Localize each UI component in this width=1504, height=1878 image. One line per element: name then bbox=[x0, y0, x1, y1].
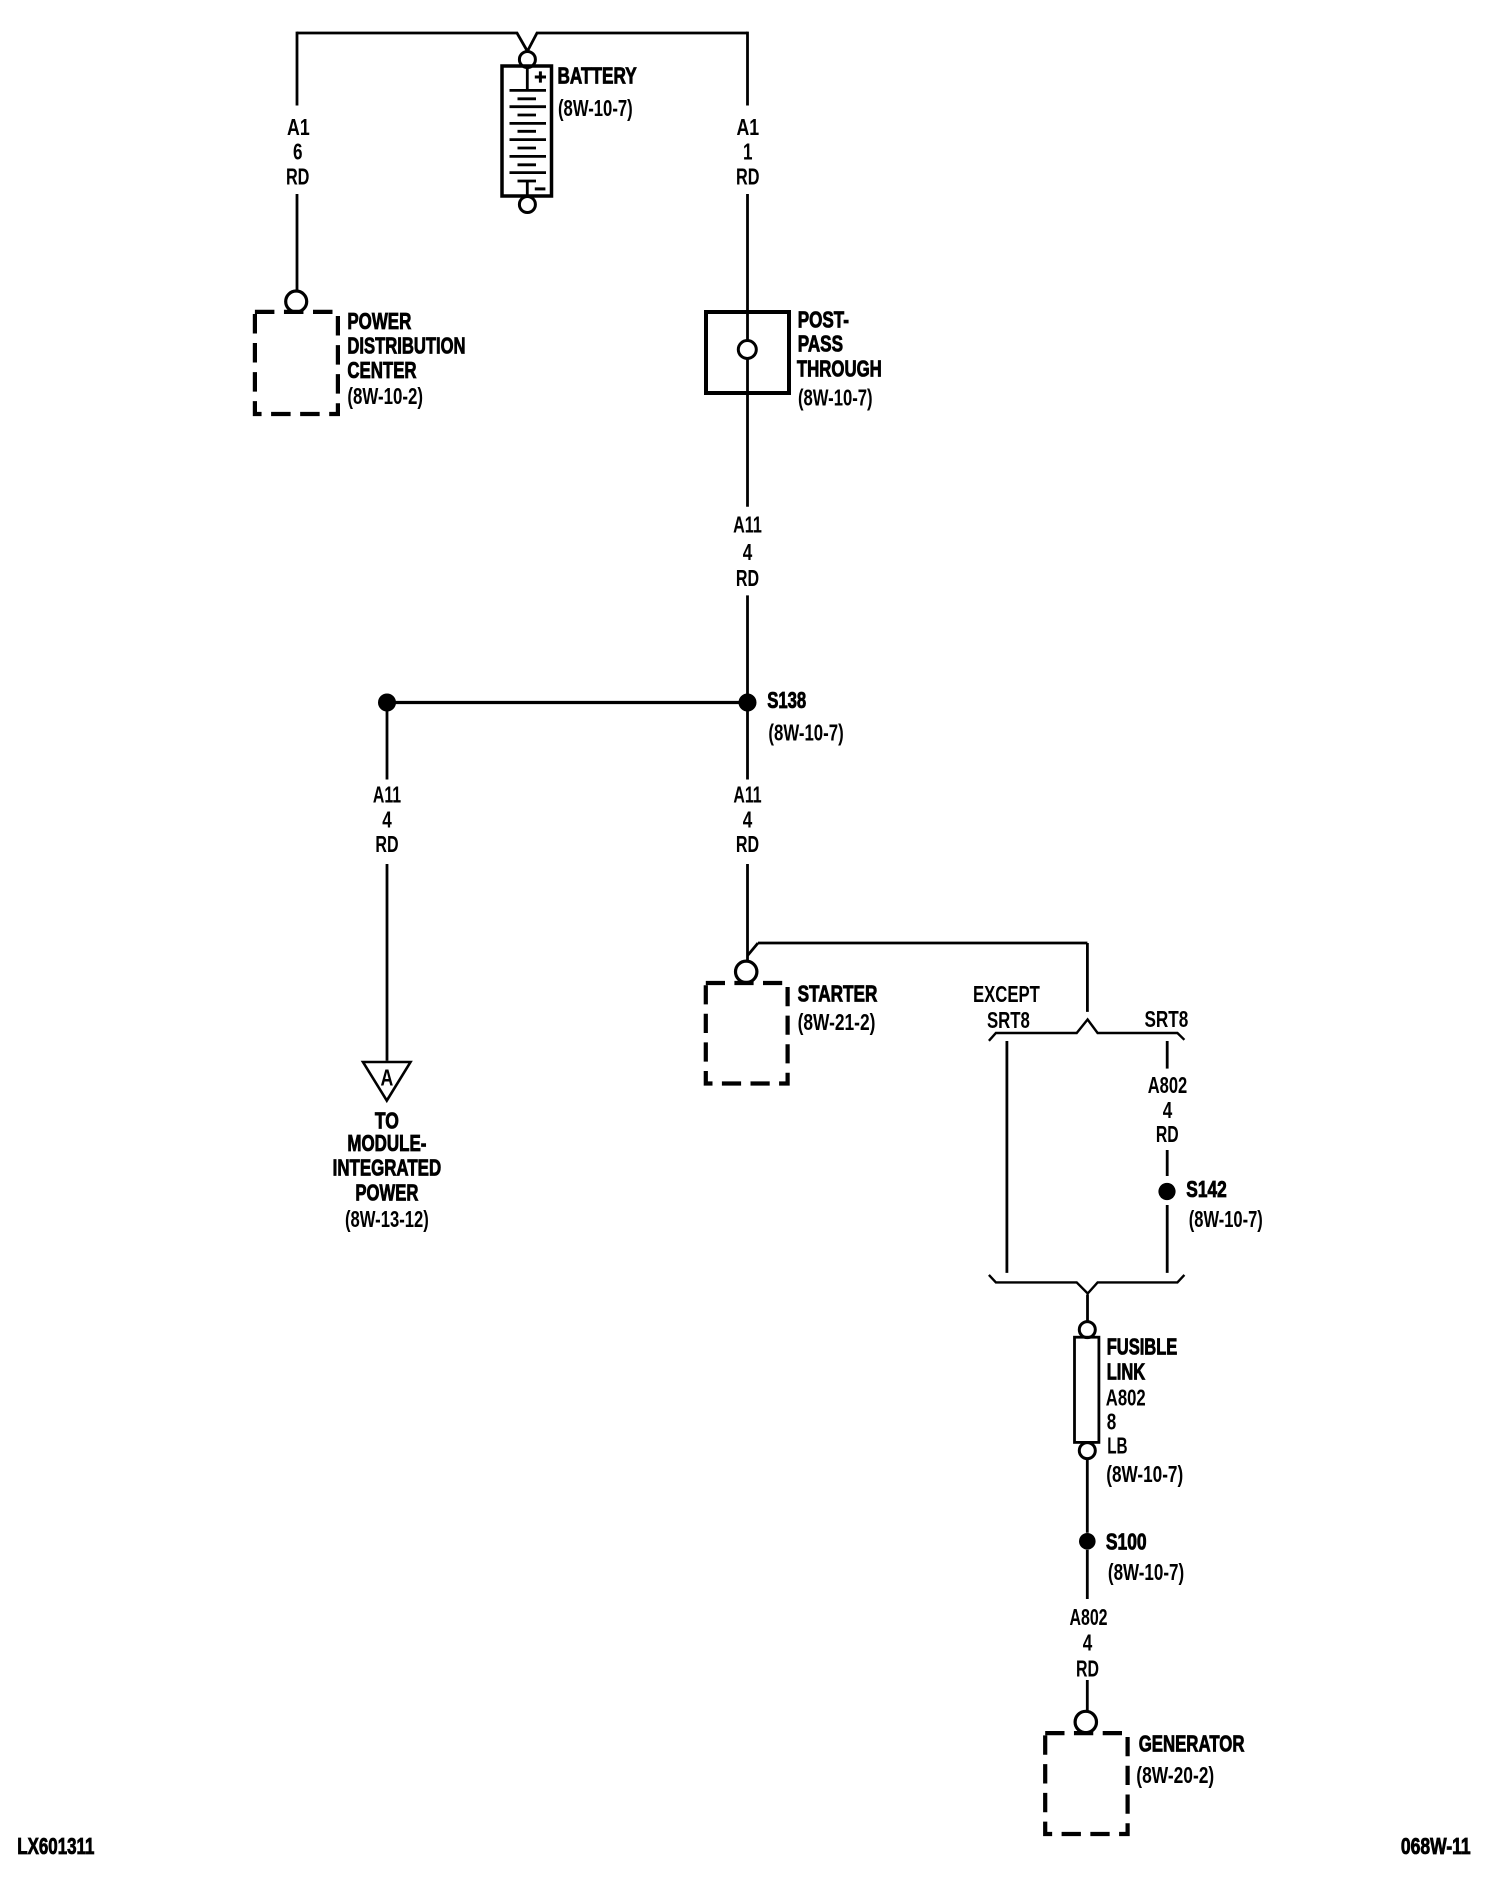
svg-text:S142: S142 bbox=[1186, 1176, 1226, 1202]
fusible link body bbox=[1075, 1337, 1099, 1442]
battery B1 top terminal circle bbox=[519, 52, 535, 68]
svg-text:(8W-10-7): (8W-10-7) bbox=[1106, 1461, 1183, 1487]
svg-text:A11: A11 bbox=[733, 512, 762, 538]
wire top-right horizontal from battery V to right branch bbox=[528, 33, 748, 51]
svg-text:(8W-10-7): (8W-10-7) bbox=[768, 720, 843, 746]
svg-text:A1: A1 bbox=[287, 114, 310, 140]
svg-text:CENTER: CENTER bbox=[347, 357, 416, 383]
splice S138 dot bbox=[739, 694, 757, 712]
battery B1 positive stub bbox=[526, 68, 529, 90]
svg-text:FUSIBLE: FUSIBLE bbox=[1107, 1333, 1178, 1359]
wire A802 label to generator bbox=[1086, 1680, 1089, 1711]
svg-text:A802: A802 bbox=[1148, 1072, 1188, 1098]
svg-text:RD: RD bbox=[736, 163, 760, 189]
wire starter branch lower segment to starter bbox=[746, 864, 749, 961]
svg-text:4: 4 bbox=[1083, 1630, 1093, 1656]
svg-text:MODULE-: MODULE- bbox=[347, 1130, 426, 1156]
post-pass through eyelet circle bbox=[738, 341, 756, 359]
wire left vertical A1-6-RD lower segment bbox=[296, 194, 299, 291]
svg-text:A1: A1 bbox=[736, 114, 759, 140]
wire fusible link to S100 bbox=[1086, 1459, 1089, 1533]
svg-text:S138: S138 bbox=[767, 687, 806, 713]
svg-text:(8W-21-2): (8W-21-2) bbox=[798, 1009, 876, 1035]
svg-text:SRT8: SRT8 bbox=[987, 1007, 1030, 1033]
svg-text:8: 8 bbox=[1107, 1409, 1117, 1435]
svg-text:(8W-10-7): (8W-10-7) bbox=[558, 95, 633, 121]
option split brace top bbox=[989, 1020, 1185, 1041]
svg-text:6: 6 bbox=[293, 139, 303, 165]
wire right vertical A1-1-RD upper segment bbox=[746, 32, 749, 106]
svg-text:(8W-20-2): (8W-20-2) bbox=[1136, 1762, 1214, 1788]
svg-text:(8W-10-7): (8W-10-7) bbox=[1108, 1559, 1184, 1585]
svg-text:GENERATOR: GENERATOR bbox=[1139, 1731, 1245, 1757]
splice junction dot left bbox=[378, 694, 396, 712]
wire horizontal to option split bbox=[758, 942, 1087, 945]
svg-text:LB: LB bbox=[1107, 1433, 1127, 1459]
svg-text:4: 4 bbox=[743, 539, 753, 565]
svg-text:A11: A11 bbox=[373, 782, 401, 808]
wire right vertical A1-1-RD lower segment into post box bbox=[746, 194, 749, 393]
wire SRT8 leg upper bbox=[1166, 1041, 1169, 1069]
post-pass through box bbox=[706, 312, 789, 393]
svg-text:POWER: POWER bbox=[355, 1179, 418, 1205]
battery B1 minus sign bbox=[535, 187, 546, 190]
battery B1 negative stub bbox=[526, 181, 529, 195]
wire diagonal stub to SRT8 branch bbox=[748, 943, 758, 956]
svg-text:4: 4 bbox=[382, 807, 392, 833]
svg-text:RD: RD bbox=[736, 565, 759, 591]
splice S100 dot bbox=[1079, 1533, 1096, 1550]
wire below post box upper segment bbox=[746, 393, 749, 507]
svg-text:RD: RD bbox=[1156, 1121, 1179, 1147]
fusible link top terminal circle bbox=[1079, 1322, 1095, 1338]
wire left branch below junction bbox=[386, 711, 389, 780]
svg-text:(8W-13-12): (8W-13-12) bbox=[345, 1206, 429, 1232]
svg-text:EXCEPT: EXCEPT bbox=[973, 981, 1040, 1007]
svg-text:4: 4 bbox=[1163, 1097, 1173, 1123]
svg-text:4: 4 bbox=[743, 807, 753, 833]
svg-text:LX601311: LX601311 bbox=[17, 1833, 94, 1859]
wire below post box lower segment to S138 bbox=[746, 595, 749, 694]
wire merge to fusible link bbox=[1086, 1295, 1089, 1322]
starter connector circle bbox=[736, 961, 757, 982]
wire SRT8 leg lower bbox=[1166, 1205, 1169, 1273]
battery B1 plus sign bbox=[535, 71, 546, 82]
svg-text:SRT8: SRT8 bbox=[1145, 1006, 1189, 1032]
svg-text:THROUGH: THROUGH bbox=[797, 355, 882, 381]
svg-text:(8W-10-2): (8W-10-2) bbox=[347, 383, 423, 409]
svg-text:STARTER: STARTER bbox=[798, 981, 878, 1007]
svg-text:A802: A802 bbox=[1069, 1604, 1107, 1630]
svg-text:BATTERY: BATTERY bbox=[558, 62, 637, 88]
svg-text:(8W-10-7): (8W-10-7) bbox=[1189, 1206, 1263, 1232]
svg-text:INTEGRATED: INTEGRATED bbox=[333, 1155, 442, 1181]
splice S142 dot bbox=[1158, 1183, 1175, 1200]
off-page triangle A bbox=[363, 1062, 411, 1101]
svg-text:RD: RD bbox=[736, 831, 759, 857]
battery B1 bottom terminal circle bbox=[519, 197, 535, 213]
starter dashed box bbox=[706, 983, 788, 1084]
svg-text:A: A bbox=[381, 1064, 394, 1090]
svg-text:DISTRIBUTION: DISTRIBUTION bbox=[347, 332, 465, 358]
svg-text:A11: A11 bbox=[733, 782, 761, 808]
svg-text:A802: A802 bbox=[1106, 1385, 1146, 1411]
wire left branch to triangle A bbox=[386, 864, 389, 1061]
svg-text:(8W-10-7): (8W-10-7) bbox=[798, 384, 873, 410]
svg-text:068W-11: 068W-11 bbox=[1401, 1833, 1471, 1859]
wire except-SRT8 leg bbox=[1006, 1041, 1009, 1273]
connector circle at power distribution center bbox=[286, 291, 307, 312]
power distribution center dashed box bbox=[255, 312, 338, 414]
svg-text:POWER: POWER bbox=[347, 308, 411, 334]
wire top-left horizontal from battery V to left branch bbox=[297, 33, 527, 51]
svg-text:PASS: PASS bbox=[798, 331, 843, 357]
fusible link bottom terminal circle bbox=[1079, 1443, 1095, 1459]
battery B1 case bbox=[502, 66, 552, 196]
svg-text:RD: RD bbox=[1076, 1656, 1099, 1682]
wire left vertical A1-6-RD upper segment bbox=[296, 32, 299, 106]
wire vertical into option split bbox=[1086, 943, 1089, 1012]
svg-text:POST-: POST- bbox=[798, 307, 849, 333]
svg-text:LINK: LINK bbox=[1107, 1358, 1146, 1384]
splice S138 horizontal wire bbox=[387, 701, 748, 704]
battery B1 plates bbox=[510, 90, 547, 181]
generator connector circle bbox=[1075, 1711, 1096, 1732]
option merge brace bottom bbox=[989, 1275, 1185, 1294]
wire starter branch below S138 upper segment bbox=[746, 711, 749, 780]
svg-text:S100: S100 bbox=[1106, 1529, 1147, 1555]
svg-text:RD: RD bbox=[375, 831, 398, 857]
svg-text:RD: RD bbox=[286, 163, 310, 189]
generator dashed box bbox=[1045, 1733, 1127, 1834]
wire SRT8 leg middle bbox=[1166, 1150, 1169, 1176]
svg-text:1: 1 bbox=[743, 139, 753, 165]
wire S100 to A802 label bbox=[1086, 1550, 1089, 1599]
